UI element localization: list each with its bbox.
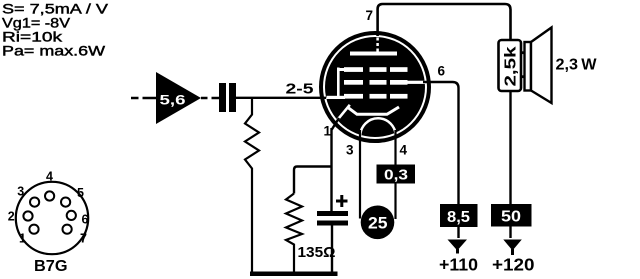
socket pin 1 (29, 225, 38, 234)
svg-text:3: 3 (17, 185, 24, 199)
wire below 2,5k (509, 91, 511, 238)
capacitor C2 bottom lead (331, 226, 333, 273)
tube heater arc (360, 118, 395, 136)
svg-text:8,5: 8,5 (447, 209, 470, 226)
voltage box 0,3 (377, 165, 416, 184)
svg-text:+110: +110 (439, 255, 478, 275)
socket pin 7 (63, 225, 72, 234)
transformer primary 2,5k box (499, 40, 522, 91)
svg-text:135Ω: 135Ω (298, 244, 336, 261)
svg-text:B7G: B7G (34, 258, 68, 275)
supply arrow +120 (503, 240, 522, 256)
socket pin 5 (61, 198, 70, 207)
svg-text:2-5: 2-5 (286, 81, 314, 98)
socket pin 3 (30, 198, 39, 207)
resistor R1 grid leak (245, 98, 259, 272)
svg-text:6: 6 (82, 213, 89, 227)
socket pin 6 (67, 211, 76, 220)
tube cathode lead white (338, 105, 350, 120)
svg-text:25: 25 (368, 214, 388, 233)
svg-text:2: 2 (8, 210, 15, 224)
amplifier triangle (156, 72, 201, 124)
resistor R2 cathode 135 ohm (286, 194, 302, 273)
wire triangle to capacitor (201, 97, 219, 99)
tube anode lead dashed (376, 38, 379, 52)
current circle 25 (361, 206, 395, 240)
svg-text:3: 3 (346, 143, 354, 158)
pin 1 lead (332, 118, 340, 212)
pin 7 lead (378, 4, 511, 40)
capacitor C1 plate 2 (229, 83, 236, 112)
tube grid bracket left (327, 68, 346, 100)
capacitor C2 plate 1 (317, 211, 348, 216)
svg-text:2,3 W: 2,3 W (556, 57, 598, 74)
svg-text:5,6: 5,6 (160, 92, 186, 108)
speaker cone (531, 28, 552, 104)
pin 6 lead (423, 82, 459, 238)
svg-text:50: 50 (501, 209, 521, 226)
tube g2 lead right (406, 81, 425, 84)
svg-text:7: 7 (80, 232, 87, 246)
tube V1 envelope (321, 33, 429, 141)
socket pin 4 (45, 191, 54, 200)
capacitor C1 plate 1 (219, 83, 226, 112)
tube grid g3 row (344, 67, 408, 72)
tube grid g2 row (344, 80, 408, 85)
svg-text:2,5k: 2,5k (503, 46, 520, 86)
supply arrow +110 (448, 240, 468, 254)
capacitor C2 plus sign (336, 195, 348, 207)
pin 3 lead (359, 130, 361, 219)
wire capacitor to tube grid (236, 97, 326, 99)
capacitor C2 plate 2 (317, 221, 348, 226)
svg-text:0,3: 0,3 (384, 168, 408, 184)
input wire (131, 97, 157, 99)
speaker stub bottom (521, 75, 525, 78)
svg-text:+120: +120 (492, 255, 535, 275)
pin 4 lead (394, 130, 396, 219)
svg-text:7: 7 (366, 8, 374, 23)
voltage box 8,5 (440, 204, 478, 227)
socket pin 2 (23, 211, 32, 220)
svg-text:5: 5 (77, 186, 84, 200)
ground rail (250, 272, 338, 277)
voltage box 50 (491, 204, 532, 227)
tube cathode (347, 107, 399, 115)
svg-text:Pa= max.6W: Pa= max.6W (2, 43, 106, 59)
tube anode plate (350, 52, 397, 56)
svg-text:4: 4 (400, 143, 408, 158)
tube grid g1 row (344, 94, 408, 99)
svg-text:1: 1 (19, 232, 26, 246)
cathode network jog wire (294, 167, 332, 194)
socket B7G outline (16, 182, 88, 254)
svg-text:6: 6 (438, 64, 446, 79)
speaker frame (525, 42, 532, 91)
speaker stub top (521, 51, 525, 54)
svg-text:4: 4 (46, 170, 53, 184)
